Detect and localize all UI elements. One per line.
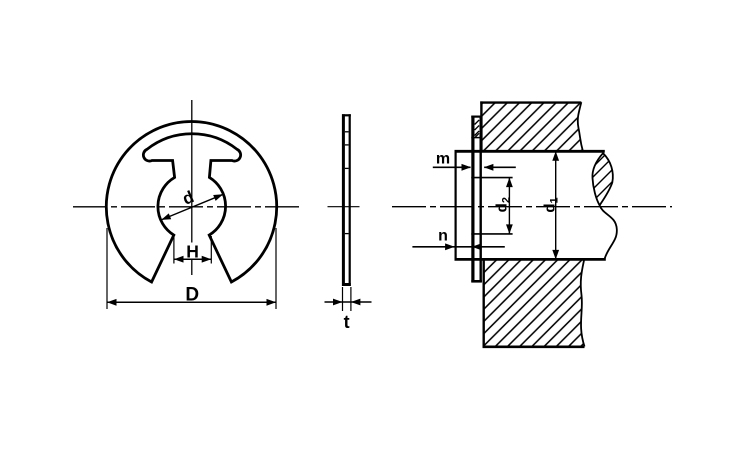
E-clip outline (outer ring, T-slot, bore, prongs)	[106, 122, 276, 282]
dimension H line with arrows	[174, 258, 211, 260]
dimension n line	[412, 246, 504, 248]
svg-text:H: H	[186, 242, 199, 262]
svg-text:n: n	[438, 228, 448, 245]
side view strip right edge	[349, 114, 351, 286]
housing bottom block bottom edge	[483, 345, 585, 348]
groove bottom line bottom / d2 extension	[471, 233, 512, 235]
side view segment lines	[345, 131, 349, 133]
svg-text:m: m	[436, 151, 450, 168]
side view strip left edge	[342, 114, 345, 286]
centerline horizontal (front view)	[73, 206, 300, 208]
dimension D line with arrows	[107, 301, 276, 303]
centerline vertical (front view)	[191, 100, 193, 243]
groove bottom line top / d2 extension	[471, 177, 512, 179]
housing top block hatching	[481, 102, 583, 151]
E-clip strip section divider	[471, 137, 482, 139]
shaft end face	[455, 150, 457, 260]
svg-text:D: D	[185, 285, 199, 306]
side view strip top edge	[342, 114, 351, 116]
housing bottom block right broken edge	[581, 260, 585, 346]
housing top block top edge	[480, 101, 581, 103]
svg-text:t: t	[344, 312, 350, 332]
centerline (right figure)	[392, 206, 672, 208]
housing bottom block left edge	[483, 259, 485, 347]
shaft break lens	[592, 153, 612, 205]
shaft break curve	[600, 205, 617, 258]
housing bottom block hatching	[483, 260, 585, 346]
dimension H extension lines	[173, 236, 175, 264]
shaft bottom edge	[455, 258, 606, 261]
side view centerline	[328, 206, 360, 208]
E-clip strip section hatching	[475, 120, 480, 137]
housing top block left edge	[480, 101, 482, 151]
dimension d2 line with arrows	[508, 178, 510, 234]
dimension d (bore) arrow	[161, 194, 223, 220]
E-clip strip bottom edge (installed)	[471, 280, 482, 283]
dimension m line	[433, 166, 471, 168]
dimension D extension lines	[106, 228, 108, 309]
housing top block right broken edge	[578, 102, 583, 151]
E-clip strip right edge (installed)	[480, 116, 482, 282]
side view strip bottom edge	[342, 283, 351, 286]
E-clip strip left edge (installed)	[471, 116, 474, 282]
E-clip strip top edge (installed)	[471, 115, 482, 117]
dimension d1 line with arrows	[555, 151, 557, 259]
dimension t extension lines	[342, 287, 344, 311]
dimension t line with outside arrows	[325, 301, 372, 303]
shaft top edge	[455, 150, 605, 153]
